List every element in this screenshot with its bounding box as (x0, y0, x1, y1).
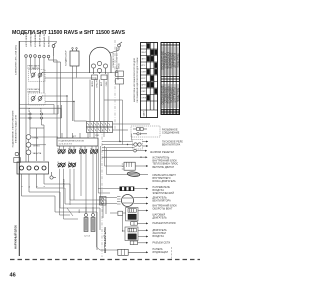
wires to fan relay (102, 141, 135, 148)
svg-text:ЗАЗЕМЛ: ЗАЗЕМЛ (63, 178, 66, 187)
wire relay K2 to fan circuit (42, 96, 74, 138)
svg-text:ВОЗДУХА: ВОЗДУХА (153, 189, 165, 192)
svg-text:ВЕНТИЛЯТОРА: ВЕНТИЛЯТОРА (153, 199, 172, 202)
fan capacitors C2 C3 (63, 178, 96, 237)
stub to indoor fan motor pins (100, 197, 117, 199)
svg-text:1 2 3 4 5 6 7 8: 1 2 3 4 5 6 7 8 (59, 144, 73, 146)
strip pin ticks (60, 146, 97, 149)
svg-text:РАЗЪЕМ ПИТАНИЯ: РАЗЪЕМ ПИТАНИЯ (153, 222, 176, 225)
louvre feed wire with plug (102, 149, 147, 152)
svg-text:ПУСКОВОЕ РЕЛЕ: ПУСКОВОЕ РЕЛЕ (162, 141, 183, 143)
svg-text:С2 С3: С2 С3 (84, 236, 91, 238)
junction node (66, 95, 67, 96)
row labels (141, 46, 146, 100)
svg-text:БЕЛЫЙ Ф3: БЕЛЫЙ Ф3 (48, 35, 51, 47)
svg-text:КОР: КОР (141, 78, 146, 80)
svg-text:ЦВЕТ: ЦВЕТ (144, 110, 146, 116)
electric heater element (striped bar) (113, 187, 148, 191)
svg-text:ОБОЗНАЧЕНИЕ ЦВЕТОВ ПРОВОДОВ СХ: ОБОЗНАЧЕНИЕ ЦВЕТОВ ПРОВОДОВ СХЕМЫ (136, 57, 139, 103)
wire relay K1 to compressor circuit (31, 70, 119, 78)
relay K1 (magnetic contactor, upper) (28, 64, 46, 81)
paired terminals row 1 under strip (58, 149, 98, 154)
wires compressor to PCB connector (90, 72, 118, 122)
table 2 bottom pin ticks (162, 110, 179, 114)
svg-text:СОЕДИНЕНИЕ: СОЕДИНЕНИЕ (162, 132, 180, 134)
svg-text:ЭЛЕКТРИЧЕСКИЙ: ЭЛЕКТРИЧЕСКИЙ (153, 192, 175, 195)
display board (118, 249, 148, 255)
svg-text:ЖАЛЮЗИ РЕШЕТКИ: ЖАЛЮЗИ РЕШЕТКИ (150, 151, 174, 154)
stub to fan terminal box (105, 165, 113, 167)
wire start relay to control rows (104, 84, 123, 145)
drain sensor (50, 172, 56, 179)
svg-text:НОМЕРНОЕ: НОМЕРНОЕ (177, 87, 180, 102)
contact labels on mains rows (29, 108, 43, 112)
svg-text:ШАГОВЫЙ: ШАГОВЫЙ (153, 213, 166, 216)
svg-text:НАГРЕВАТЕЛЬ: НАГРЕВАТЕЛЬ (153, 186, 171, 189)
svg-text:ПОДКЛЮЧЕНИЕ ЭЛЕКТРОПИТАНИЯ: ПОДКЛЮЧЕНИЕ ЭЛЕКТРОПИТАНИЯ (12, 110, 15, 147)
svg-text:ВНУТРЕННЕГО: ВНУТРЕННЕГО (153, 178, 171, 180)
evaporator feed wire (102, 156, 148, 158)
svg-text:ДВИГАТЕЛЬ: ДВИГАТЕЛЬ (153, 196, 168, 199)
svg-text:ЖЕЛ: ЖЕЛ (141, 52, 146, 54)
wire capacitor C1 down (73, 66, 77, 121)
mains input terminals L N PE (25, 55, 50, 58)
power plug block indoor (100, 197, 107, 206)
svg-text:РАЗЪЕМНОЕ: РАЗЪЕМНОЕ (162, 128, 178, 131)
svg-text:ДВИГАТЕЛЬ: ДВИГАТЕЛЬ (153, 216, 168, 219)
svg-text:ПУСКАТЕЛЬ: ПУСКАТЕЛЬ (28, 67, 41, 70)
plug under SM2 (130, 241, 148, 245)
svg-text:ЧЕРН: ЧЕРН (92, 81, 94, 87)
wires into terminal strip top (62, 133, 94, 138)
vertical text smudge in table 2 columns (161, 47, 178, 109)
svg-text:НАРУЖНЫЙ БЛОК: НАРУЖНЫЙ БЛОК (14, 225, 18, 249)
svg-text:ЖЕЛТ-ЗЕЛЕН: ЖЕЛТ-ЗЕЛЕН (26, 33, 28, 47)
svg-text:КЛЕММНАЯ КОЛОДКА СЕТИ: КЛЕММНАЯ КОЛОДКА СЕТИ (15, 114, 18, 143)
return wires to boundary (19, 105, 61, 119)
compressor M1 (hermetic, dome outline) (90, 47, 112, 73)
svg-text:ВЕНТИЛЯТ: ВЕНТИЛЯТ (28, 91, 40, 93)
svg-text:ОРЖ: ОРЖ (141, 98, 146, 100)
interconnect wires below X1 (staircase to right) (22, 184, 107, 250)
verticals (147, 43, 154, 118)
svg-text:СИН: СИН (141, 72, 146, 74)
right label column (150, 141, 183, 254)
svg-text:МАРКИРОВКА ЖИЛ КАБЕЛЕЙ И ПРОВО: МАРКИРОВКА ЖИЛ КАБЕЛЕЙ И ПРОВОДОВ (133, 57, 136, 102)
svg-text:МОДЕЛИ SHT 11500 RAVS и SHT 11: МОДЕЛИ SHT 11500 RAVS и SHT 11500 SAVS (12, 30, 126, 36)
svg-text:46: 46 (10, 272, 16, 278)
svg-text:ЗАСЛОНКИ: ЗАСЛОНКИ (153, 232, 167, 235)
wire bus PCB to right (74, 121, 150, 130)
svg-text:ОБОРОТЫ ВЕНТ: ОБОРОТЫ ВЕНТ (153, 209, 173, 211)
svg-text:СЕР: СЕР (141, 91, 146, 93)
overload protector OL (92, 75, 108, 80)
PCB connector CN1 (pin header) (87, 122, 113, 138)
control fuse and protector stack (26, 135, 58, 162)
step motor SM2 (connector pins + dark rotor) (125, 227, 148, 241)
paired terminals row 2 under strip (58, 163, 76, 168)
indoor fan motor M2 (117, 195, 148, 207)
step motor SM1 (connector pins + dark rotor) (126, 208, 148, 221)
plug under SM1 (131, 222, 148, 226)
svg-text:КРС: КРС (141, 65, 146, 67)
outdoor unit boundary (left border line) (18, 41, 20, 256)
stub to fan blade (107, 174, 128, 176)
svg-text:ПОДКЛЮЧЕНИЕ БЛОКОВ: ПОДКЛЮЧЕНИЕ БЛОКОВ (59, 140, 85, 142)
svg-text:КОМПРЕССОР: КОМПРЕССОР (113, 52, 115, 67)
table 1 (wire colour code chart) (141, 43, 158, 118)
svg-text:КРАСН: КРАСН (96, 80, 99, 87)
svg-text:ИНДИКАЦИИ: ИНДИКАЦИИ (153, 251, 169, 254)
wire bus down from contacts (30, 119, 44, 161)
pin labels below X1 (22, 185, 47, 187)
filled code cells (147, 43, 157, 100)
svg-text:ТЕРМО: ТЕРМО (33, 145, 41, 147)
indoor fan motor terminal box (112, 162, 148, 170)
bottom page dashed rule (10, 259, 200, 261)
pins below X1 (22, 174, 45, 184)
fan relay K3 (dashed box with contacts) (132, 134, 149, 150)
svg-text:ЗЕЛ: ЗЕЛ (141, 59, 146, 61)
cluster pin labels (57, 149, 92, 165)
compressor terminal labels (92, 80, 108, 87)
svg-text:ЗАЩИТА: ЗАЩИТА (33, 152, 42, 155)
svg-text:БЕЛ: БЕЛ (141, 46, 146, 48)
protective earth symbol (52, 43, 56, 57)
svg-text:ЧРН: ЧРН (141, 85, 146, 87)
svg-text:РЕЛЕ МАГН: РЕЛЕ МАГН (28, 64, 40, 67)
run capacitor C1 (65, 48, 80, 67)
svg-text:НОМЕРНОЕ: НОМЕРНОЕ (177, 53, 180, 68)
stub to heater (98, 188, 113, 190)
svg-text:ТЕПЛООБМЕН ПЛЮС: ТЕПЛООБМЕН ПЛЮС (153, 164, 179, 166)
svg-text:ИСПАРИТЕЛЬ: ИСПАРИТЕЛЬ (153, 157, 170, 160)
start relay block right of compressor (116, 71, 124, 84)
relay box on swing feed wire (110, 211, 126, 231)
legend: disconnect plug symbols in dashed box (131, 126, 180, 137)
series contacts on mains feed (19, 105, 61, 119)
top-left wire colour labels (vertical) (26, 31, 51, 47)
connector X2 label cells / terminal strip at top of PCB (57, 136, 98, 146)
svg-text:КОНДЕНСАТОР: КОНДЕНСАТОР (65, 50, 68, 66)
compressor motor windings (91, 61, 107, 74)
svg-text:РЕЛЕ МАГН: РЕЛЕ МАГН (28, 88, 40, 91)
svg-text:БЕЛ: БЕЛ (101, 81, 103, 86)
service switch on boundary (14, 152, 20, 162)
svg-text:СИН: СИН (106, 81, 108, 86)
svg-text:ВНУТРЕННИЙ БЛОК: ВНУТРЕННИЙ БЛОК (103, 227, 107, 253)
unit boundary chain line (indoor/outdoor) (114, 40, 116, 130)
relay K2 (magnetic contactor, lower) (28, 88, 46, 105)
svg-text:А ВНЕШНЯЯ СЕТЬ 220В 50ГЦ: А ВНЕШНЯЯ СЕТЬ 220В 50ГЦ (15, 45, 18, 75)
wire from terminal 1 down to terminal strip X1 (26, 56, 61, 162)
power terminal strip X1 (17, 162, 49, 174)
svg-text:ВЕНТИЛЯТОРА: ВЕНТИЛЯТОРА (162, 143, 181, 146)
table 2 (terminal assignment chart) (161, 43, 180, 115)
horizontals (141, 49, 158, 110)
top border segment (19, 41, 57, 43)
svg-text:СИНИЙ НОЛЬ: СИНИЙ НОЛЬ (30, 32, 33, 47)
interconnect boundary tick (171, 247, 173, 259)
svg-text:ЧЕРНЫЙ ФАЗА: ЧЕРНЫЙ ФАЗА (39, 31, 42, 47)
svg-text:КОРИЧНЕВЫЙ: КОРИЧНЕВЫЙ (34, 32, 37, 47)
svg-text:КРАСНЫЙ Ф2: КРАСНЫЙ Ф2 (43, 33, 46, 47)
earth symbol at compressor shell (110, 42, 122, 53)
svg-text:ПРЕД: ПРЕД (33, 138, 39, 140)
svg-text:РАЗЪЕМ СЕТИ: РАЗЪЕМ СЕТИ (153, 242, 171, 245)
svg-text:ПУСК: ПУСК (119, 62, 121, 68)
svg-text:КРЫЛЬЧАТКА ВЕНТ: КРЫЛЬЧАТКА ВЕНТ (153, 174, 177, 177)
svg-text:ВНУТРЕННИЙ БЛОК: ВНУТРЕННИЙ БЛОК (153, 205, 178, 208)
svg-text:ВЕНТИЛЬ ДВИГАТ: ВЕНТИЛЬ ДВИГАТ (153, 166, 175, 169)
svg-text:ПАНЕЛЬ: ПАНЕЛЬ (153, 248, 163, 251)
svg-text:БЛОКА ДВИГАТЕЛЬ: БЛОКА ДВИГАТЕЛЬ (153, 180, 177, 183)
indoor wire bundle verticals (98, 146, 106, 204)
wires from PCB terminals down to capacitors (60, 154, 118, 251)
svg-text:ВОЗДУХА: ВОЗДУХА (153, 235, 165, 238)
svg-text:ДВИГАТЕЛЬ: ДВИГАТЕЛЬ (153, 229, 168, 232)
cross-flow fan blade (lens symbol) (127, 171, 140, 177)
svg-text:ВНУТРЕННИЙ БЛОК: ВНУТРЕННИЙ БЛОК (153, 160, 178, 163)
